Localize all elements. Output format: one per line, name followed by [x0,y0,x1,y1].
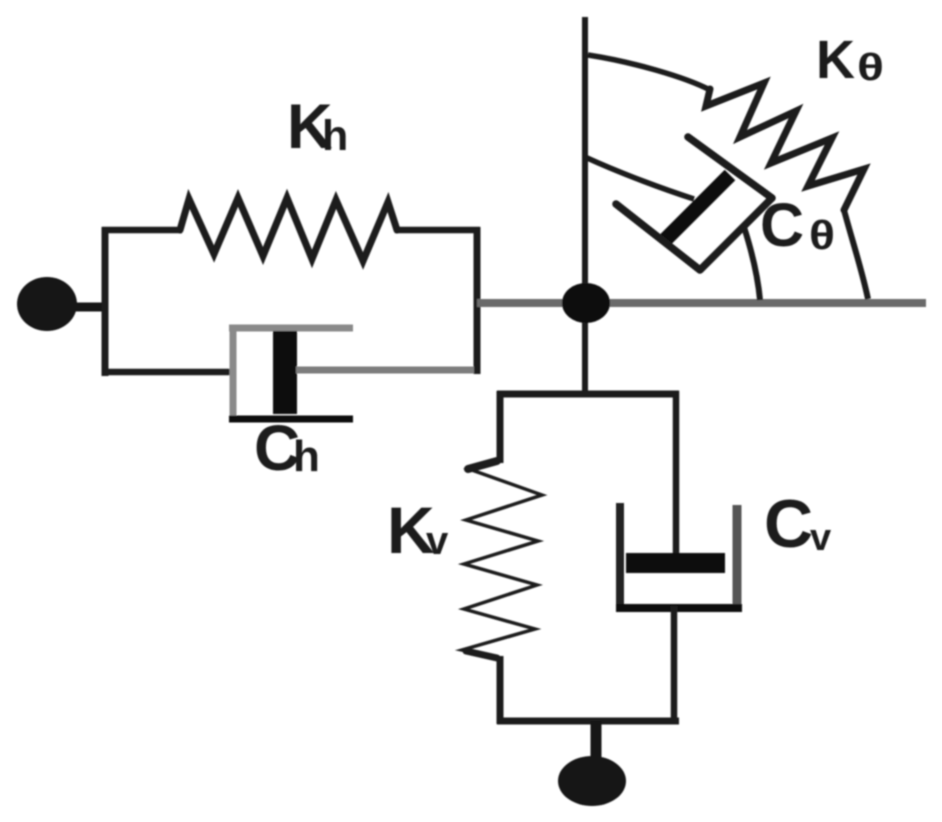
arc upper (column to spring Ktheta) [588,55,710,90]
stub to bottom ball [591,721,602,757]
right rail of Kh-Ch block [474,227,481,374]
svg-text:h: h [293,432,320,481]
damper Cv piston plate [626,553,725,573]
svg-text:K: K [816,30,855,90]
spring Kv [462,461,542,658]
wire top-right (spring Kh to right rail) [395,227,480,234]
spring Kv top connection blob [468,461,497,469]
damper Ch cup bottom plate [229,416,353,423]
column (vertical member through node) [582,17,588,397]
damper Ch cup left wall [230,325,237,419]
damper Cv cup right wall [733,505,742,609]
damper Ctheta cup (bottom plate and right wall) [616,199,771,270]
wire top-left (rail to spring Kh) [102,227,182,234]
ground line [477,299,926,307]
Kv-Cv block bottom edge [497,718,679,725]
damper Ctheta piston rod [662,175,730,243]
damper Cv lower rod (block right edge lower) [671,606,678,724]
ball bottom (pin support) [558,756,626,806]
svg-text:θ: θ [857,47,884,89]
spring Kh [180,198,397,261]
damper Cv cup bottom plate [616,604,742,612]
node center (pin at column base) [562,283,610,323]
damper Cv piston rod (block right edge upper) [673,391,680,556]
wire stub from left ball to left rail [70,303,106,312]
damper Ctheta piston head plate [688,137,772,198]
svg-text:C: C [760,191,804,259]
damper Ch piston rod [296,367,474,374]
svg-text:θ: θ [809,212,835,258]
arc from damper Ctheta to ground [744,227,760,300]
wire bottom-left (rail to damper Ch cup) [102,369,233,376]
arc lower (column to damper Ctheta) [585,157,694,199]
Kv-Cv block left edge upper [497,391,504,463]
damper Ch piston [273,331,297,414]
svg-text:v: v [810,517,831,559]
Kv-Cv block top edge [497,391,679,398]
svg-text:v: v [426,519,449,563]
left rail of Kh-Ch block [102,227,109,376]
ball left (pin support) [17,277,77,331]
svg-text:C: C [764,486,813,562]
Kv-Cv block left edge lower [497,656,504,724]
svg-text:h: h [322,112,348,160]
spring Ktheta tail arc to ground [844,210,868,299]
spring Kv bottom connection blob [466,651,497,658]
spring Ktheta [706,83,864,210]
damper Ch cup top plate [229,325,353,332]
damper Cv cup left wall [616,503,624,611]
